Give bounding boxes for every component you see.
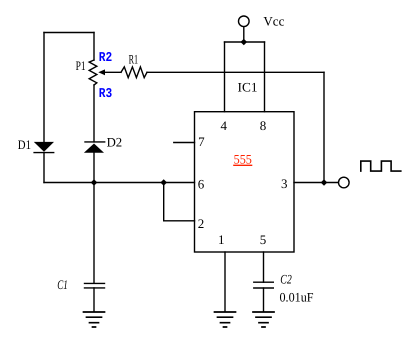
junction node C1/diodes [91,179,98,186]
wire pin 1 lead [224,252,226,312]
wire pin 4 lead [224,42,226,112]
svg-text:2: 2 [198,216,205,231]
svg-text:7: 7 [198,134,205,149]
wire R1 to right corner [147,71,324,73]
resistor R1 body [121,67,147,78]
wire pin 5 lead [263,252,265,282]
svg-text:1: 1 [218,232,225,247]
svg-text:0.01uF: 0.01uF [280,289,314,304]
capacitor C2 plates [254,282,273,288]
svg-text:3: 3 [281,176,288,191]
ground under pin 1 [215,312,236,327]
svg-text:C1: C1 [57,277,67,292]
junction node pin6/pin2 [160,179,167,186]
terminal Vcc circle [239,16,250,27]
wire right vertical down to output node [323,72,325,182]
op IC1 555 box [195,112,295,252]
svg-text:D2: D2 [107,135,123,150]
svg-text:8: 8 [260,118,267,133]
svg-text:IC1: IC1 [238,80,258,95]
wire C1 bottom lead [93,288,95,312]
wire pot top lead [93,33,95,61]
wire pin 3 output [294,182,338,184]
wire wiper to R1 [105,71,122,73]
svg-text:6: 6 [198,177,205,192]
wire D2 to node [93,153,95,183]
svg-text:D1: D1 [18,137,31,152]
svg-text:P1: P1 [76,58,86,73]
wire Vcc bracket horizontal [225,41,265,43]
potentiometer P1 body [89,60,97,85]
square wave symbol [361,161,401,171]
junction Vcc node [241,39,248,46]
wire node down to C1 [93,183,95,284]
svg-text:Vcc: Vcc [263,13,284,28]
svg-text:R2: R2 [99,51,112,66]
wire top loop horizontal [44,32,94,34]
wiper arrow of P1 [98,69,105,75]
terminal output circle [339,177,350,188]
junction output node [321,179,328,186]
svg-text:555: 555 [234,151,252,166]
svg-text:R3: R3 [99,87,112,102]
capacitor C1 plates [85,283,105,288]
diode D1 [34,142,54,152]
wire left vertical (D1 to node bottom) [43,153,45,183]
diode D2 [84,144,104,153]
svg-text:5: 5 [260,232,267,247]
underline of 555 [233,164,252,166]
svg-text:4: 4 [220,118,227,133]
svg-text:C2: C2 [280,271,292,286]
svg-text:R1: R1 [129,52,139,67]
wire pot bottom lead to D2 [93,85,95,142]
wire pin 8 lead [264,42,266,112]
wire C2 bottom lead [263,288,265,312]
wire Vcc lead [243,27,245,42]
ground under C2 [253,312,274,327]
wire pin 7 stub [174,142,195,144]
wire pin 6 horizontal [44,182,195,184]
wire left vertical (top corner to D1) [43,33,45,142]
ground under C1 [84,312,105,327]
wire pin 2 loop [164,183,195,221]
